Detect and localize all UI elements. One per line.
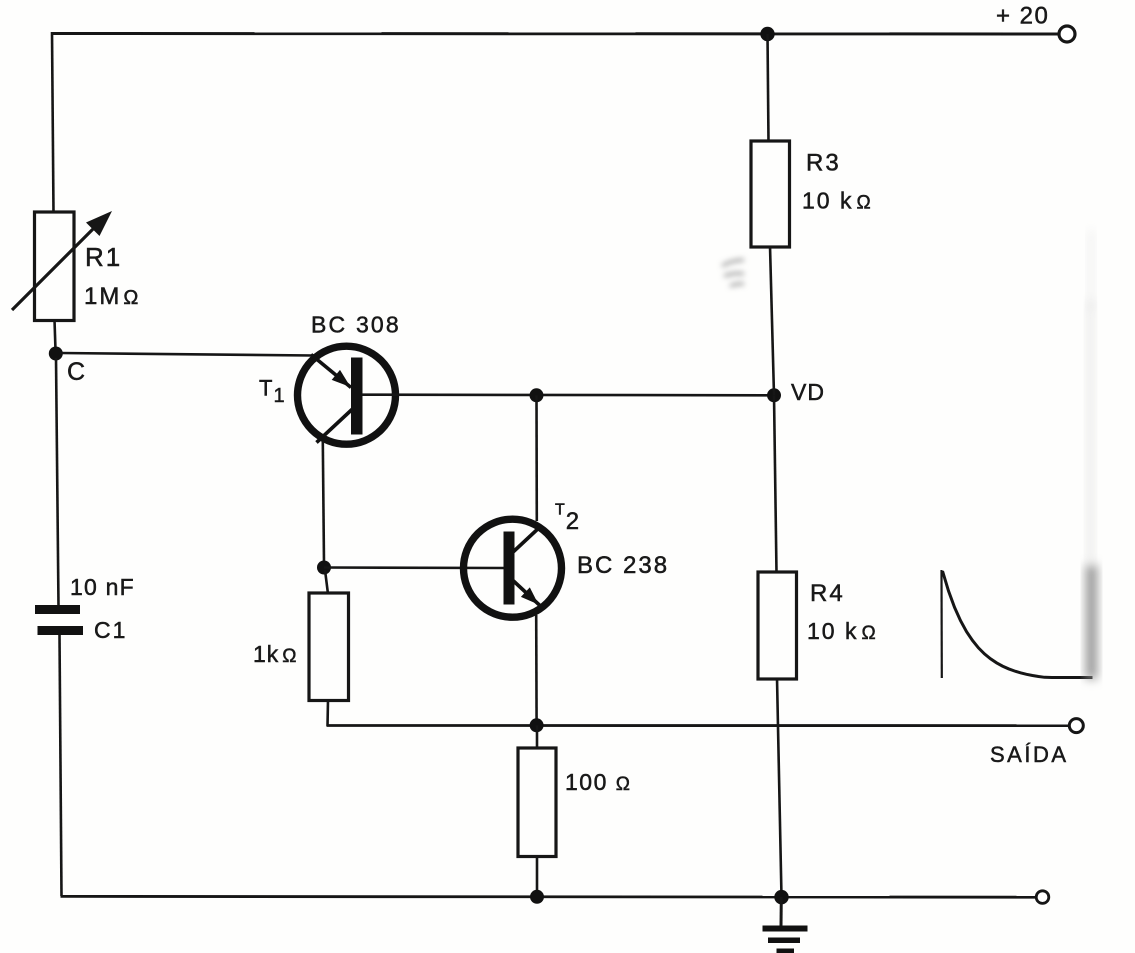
svg-text:T1: T1: [259, 376, 285, 408]
svg-text:1kΩ: 1kΩ: [253, 641, 298, 667]
transistor T2 BC238: [464, 519, 562, 617]
wire top +20 rail: [52, 32, 1059, 36]
svg-text:10 kΩ: 10 kΩ: [807, 618, 878, 644]
svg-text:R3: R3: [806, 150, 841, 177]
transistor T1 BC308: [298, 346, 396, 444]
wire junction to T2 base: [324, 566, 505, 569]
wire C1 to bottom rail: [60, 635, 62, 896]
svg-text:R1: R1: [85, 242, 122, 272]
wire T2 collector up to junction: [535, 395, 538, 521]
svg-text:100 Ω: 100 Ω: [565, 769, 631, 795]
resistor 1k: [309, 593, 349, 701]
wire bottom rail: [61, 895, 1037, 899]
svg-text:T2: T2: [555, 502, 579, 536]
node junction T1 base / T2 collector: [530, 388, 544, 402]
wire junction down to resistor 1k: [325, 570, 328, 594]
wire left rail top segment: [52, 32, 54, 213]
node bottom rail 100 ohm junction: [530, 890, 544, 904]
resistor R4: [758, 572, 797, 679]
scan smudge near R3: [722, 260, 744, 286]
svg-text:SAÍDA: SAÍDA: [990, 742, 1069, 767]
capacitor C1: [35, 605, 83, 635]
wire T1 base to node VD: [362, 393, 770, 396]
wire right rail top dot to R3: [768, 34, 769, 142]
terminal saida: [1069, 719, 1083, 733]
svg-text:10 kΩ: 10 kΩ: [802, 188, 873, 214]
wire junction down to 100 ohm: [536, 725, 539, 749]
svg-text:C: C: [67, 358, 85, 386]
svg-text:VD: VD: [791, 379, 825, 405]
wire 100 ohm to bottom rail: [536, 856, 539, 897]
svg-text:R4: R4: [810, 580, 845, 607]
terminal +20: [1059, 26, 1075, 42]
resistor R3: [751, 141, 790, 247]
svg-text:+ 20: + 20: [996, 3, 1049, 30]
svg-text:10 nF: 10 nF: [70, 574, 135, 600]
wire T1 collector down to junction: [323, 441, 324, 564]
svg-text:C1: C1: [94, 617, 127, 643]
node junction T1 collector / 1k / T2 base: [317, 561, 331, 575]
node VD: [767, 388, 781, 402]
node T2 emitter / saida junction: [530, 718, 544, 732]
wire 1k to saida line: [326, 700, 329, 726]
node junction top rail to R3: [760, 27, 774, 41]
node ground junction: [774, 890, 788, 904]
wire R3 to node VD: [770, 246, 774, 395]
ground: [763, 897, 808, 953]
svg-text:BC 308: BC 308: [311, 312, 401, 338]
wire R4 to ground junction: [777, 678, 782, 897]
svg-text:1MΩ: 1MΩ: [84, 283, 140, 310]
wire node VD to R4: [774, 395, 777, 573]
scan artifact grey streak right edge: [1086, 230, 1097, 679]
node C: [49, 347, 63, 361]
wire node C to T1 emitter: [60, 353, 314, 356]
resistor R1 variable 1M: [12, 211, 112, 321]
wire R1 to node C: [55, 320, 56, 350]
svg-text:BC 238: BC 238: [577, 552, 669, 579]
wire node C down to capacitor C1: [56, 358, 59, 606]
wire saida line: [327, 724, 1070, 727]
resistor 100 ohm: [518, 748, 556, 857]
terminal bottom right: [1036, 891, 1049, 904]
wire T2 emitter down to saida line: [535, 615, 538, 725]
waveform sketch: [942, 570, 1093, 678]
